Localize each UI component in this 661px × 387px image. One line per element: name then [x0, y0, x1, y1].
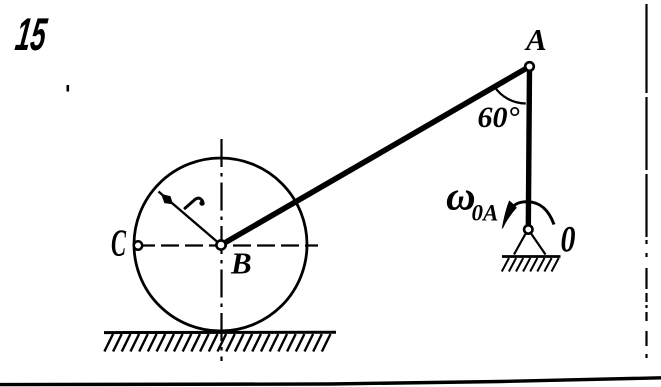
support triangle left leg	[514, 232, 527, 255]
label r	[185, 198, 203, 208]
stray tick mark	[67, 85, 70, 92]
support ground line	[502, 255, 561, 258]
radius line from B	[159, 192, 222, 246]
svg-text:B: B	[230, 246, 252, 281]
right border line dash-dot part	[645, 240, 647, 358]
ground hatching under wheel	[104, 334, 330, 352]
support triangle right leg	[530, 232, 546, 255]
pin B	[216, 240, 225, 249]
horizontal dashed centerline through B	[137, 244, 318, 246]
right border line solid part	[645, 4, 647, 237]
svg-text:0A: 0A	[472, 201, 499, 226]
pin O	[524, 225, 532, 233]
svg-text:60°: 60°	[478, 101, 520, 134]
angular velocity arrowhead	[502, 201, 517, 230]
ground line under wheel	[104, 331, 336, 334]
rod AO	[528, 67, 529, 230]
angular velocity arrow arc	[511, 202, 554, 225]
wheel circle center B	[134, 158, 307, 331]
angle arc at A	[495, 87, 526, 104]
vertical dash-dot centerline through B	[220, 139, 222, 361]
svg-text:0: 0	[561, 220, 576, 261]
svg-text:A: A	[524, 22, 547, 57]
radius arrowhead	[161, 194, 173, 204]
svg-text:C: C	[111, 223, 126, 265]
rod BA	[221, 67, 530, 246]
point C	[134, 241, 142, 249]
pin A	[525, 62, 534, 71]
bottom border bar	[0, 378, 661, 385]
support hatching	[502, 258, 559, 272]
